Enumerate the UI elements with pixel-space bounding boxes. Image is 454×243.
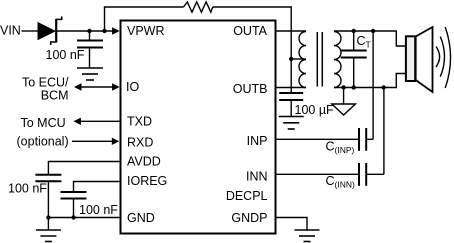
wire INN bbox=[277, 173, 359, 175]
wire AVDD bbox=[48, 162, 119, 175]
svg-text:CT: CT bbox=[357, 34, 371, 50]
capacitor CT bbox=[341, 31, 367, 88]
svg-text:IOREG: IOREG bbox=[127, 174, 167, 188]
junction dot (CT top) bbox=[352, 29, 356, 33]
label To MCU (optional) bbox=[17, 116, 69, 149]
wire TXD bbox=[73, 118, 119, 125]
junction dot (IOREG cap to GND) bbox=[71, 215, 75, 219]
junction dot (cap tap) bbox=[87, 29, 91, 33]
svg-text:100 nF: 100 nF bbox=[46, 48, 85, 62]
label To ECU/ BCM bbox=[22, 75, 69, 102]
wire INP bbox=[277, 138, 359, 140]
Schottky diode D1 bbox=[38, 16, 62, 45]
wire RXD bbox=[72, 138, 119, 145]
wire GNDP bbox=[277, 218, 308, 230]
svg-text:INN: INN bbox=[246, 170, 268, 184]
svg-text:100 nF: 100 nF bbox=[8, 181, 47, 195]
speaker LS1 bbox=[406, 27, 451, 92]
svg-text:To ECU/: To ECU/ bbox=[22, 75, 69, 89]
junction dot (C(INN) branch) bbox=[382, 85, 386, 89]
ground (GNDP) bbox=[295, 230, 320, 242]
svg-text:OUTA: OUTA bbox=[233, 24, 267, 38]
svg-text:C(INN): C(INN) bbox=[326, 174, 356, 190]
svg-text:100 nF: 100 nF bbox=[79, 203, 118, 217]
capacitor 100 nF (VPWR) bbox=[77, 31, 103, 68]
wire OUTA bbox=[277, 30, 307, 32]
svg-text:TXD: TXD bbox=[127, 115, 152, 129]
wire IO (bidirectional) bbox=[74, 83, 120, 90]
ground (100 uF) bbox=[279, 117, 304, 130]
svg-text:RXD: RXD bbox=[127, 135, 153, 149]
svg-text:VIN: VIN bbox=[0, 24, 21, 38]
junction dot (C(INP) branch) bbox=[371, 29, 375, 33]
svg-text:To MCU: To MCU bbox=[21, 116, 66, 130]
capacitor 100 nF (IOREG) bbox=[61, 192, 87, 218]
svg-text:(optional): (optional) bbox=[17, 135, 69, 149]
svg-text:IO: IO bbox=[126, 80, 139, 94]
junction dot (ground triangle) bbox=[341, 85, 345, 89]
transformer T1 primary winding bbox=[299, 32, 306, 88]
svg-text:100 µF: 100 µF bbox=[295, 103, 335, 117]
wire secondary top to speaker bbox=[334, 31, 405, 46]
transformer T1 secondary winding bbox=[334, 32, 341, 88]
wire diode to VPWR bbox=[57, 30, 114, 32]
junction dot (AVDD cap to GND) bbox=[46, 215, 50, 219]
capacitor C(INP) bbox=[359, 128, 373, 151]
capacitor C(INN) bbox=[359, 163, 384, 186]
svg-text:OUTB: OUTB bbox=[233, 82, 268, 96]
svg-text:DECPL: DECPL bbox=[226, 189, 268, 203]
transformer core bbox=[317, 32, 322, 87]
wire OUTB bbox=[277, 87, 307, 89]
wire center-tap link bbox=[291, 58, 306, 60]
ground (GND bus) bbox=[36, 218, 61, 242]
svg-text:BCM: BCM bbox=[41, 88, 69, 102]
ground (VPWR cap) bbox=[77, 68, 103, 80]
svg-text:GNDP: GNDP bbox=[231, 211, 267, 225]
svg-text:VPWR: VPWR bbox=[127, 24, 165, 38]
junction dot (center tap) bbox=[289, 57, 293, 61]
ground triangle (secondary) bbox=[332, 88, 356, 116]
arrowhead into VPWR bbox=[112, 27, 120, 34]
wire VIN to diode bbox=[22, 30, 38, 32]
junction dot (boost feed) bbox=[102, 29, 106, 33]
svg-text:INP: INP bbox=[247, 134, 268, 148]
resistor (boost feed) bbox=[184, 2, 213, 12]
wire C(INP) to secondary top bbox=[372, 31, 374, 139]
IC U1 bbox=[121, 21, 276, 234]
svg-text:C(INP): C(INP) bbox=[326, 140, 355, 156]
capacitor 100 nF (AVDD) bbox=[35, 175, 61, 218]
junction dot (CT bottom) bbox=[352, 85, 356, 89]
wire GND bus bbox=[48, 217, 119, 219]
svg-text:AVDD: AVDD bbox=[127, 155, 161, 169]
wire resistor to transformer center tap bbox=[213, 7, 292, 93]
wire C(INN) to secondary bottom bbox=[383, 88, 385, 175]
capacitor 100 uF bbox=[279, 93, 303, 117]
svg-text:GND: GND bbox=[127, 211, 155, 225]
wire secondary bottom to speaker bbox=[334, 74, 405, 88]
wire IOREG bbox=[74, 182, 120, 192]
wire VPWR feed to resistor bbox=[105, 7, 184, 31]
